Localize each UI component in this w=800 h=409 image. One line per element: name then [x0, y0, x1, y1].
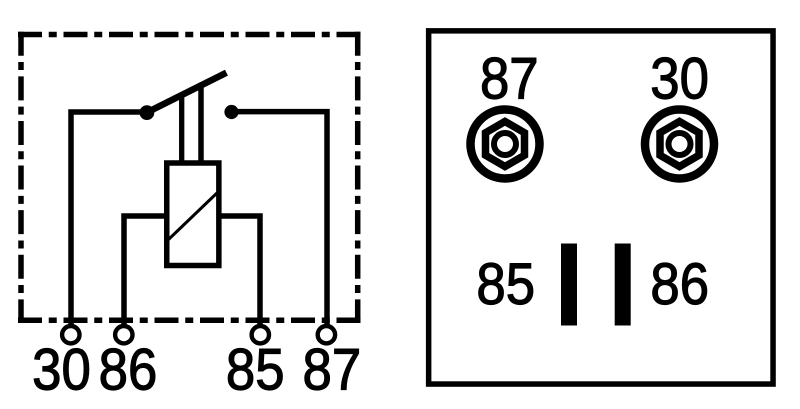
- contact dot: normally open (87): [224, 105, 238, 119]
- svg-text:85: 85: [226, 337, 285, 402]
- svg-text:87: 87: [303, 337, 362, 402]
- svg-text:86: 86: [99, 337, 158, 402]
- relay outline dash-dot box : bottom edge: [18, 318, 361, 324]
- terminal pin circle 30: [62, 326, 79, 343]
- svg-text:86: 86: [650, 252, 709, 317]
- svg-text:30: 30: [32, 337, 91, 402]
- terminal pin circle 85: [252, 326, 269, 343]
- contact dot: common (30): [140, 105, 155, 120]
- terminal pin circle 87: [318, 326, 335, 343]
- relay outline dash-dot box : right edge: [355, 32, 361, 323]
- screw terminal 30 (nut symbol): [645, 110, 714, 179]
- wire: terminal 85 up and over to coil right side: [220, 216, 260, 327]
- wire: terminal 30 up and over to common contact: [71, 112, 147, 327]
- wire: terminal 86 up and over to coil left side: [124, 216, 166, 327]
- blade terminal 86 (right bar): [615, 244, 631, 326]
- wire: normally-open contact over and down to terminal 87: [232, 112, 328, 327]
- svg-text:87: 87: [480, 46, 539, 111]
- relay socket body box (right): [429, 31, 773, 384]
- switch armature (movable contact arm): [147, 74, 224, 112]
- blade terminal 85 (left bar): [561, 244, 577, 326]
- terminal pin circle 86: [115, 326, 132, 343]
- screw terminal 87 (nut symbol): [471, 110, 540, 179]
- relay outline dash-dot box : left edge: [18, 32, 24, 323]
- svg-text:30: 30: [650, 46, 709, 111]
- armature actuator link (double line): [182, 83, 201, 163]
- relay outline dash-dot box (left) : top edge: [18, 32, 361, 38]
- svg-text:85: 85: [476, 252, 535, 317]
- coil K1 (rectangle with diagonal): [167, 163, 219, 266]
